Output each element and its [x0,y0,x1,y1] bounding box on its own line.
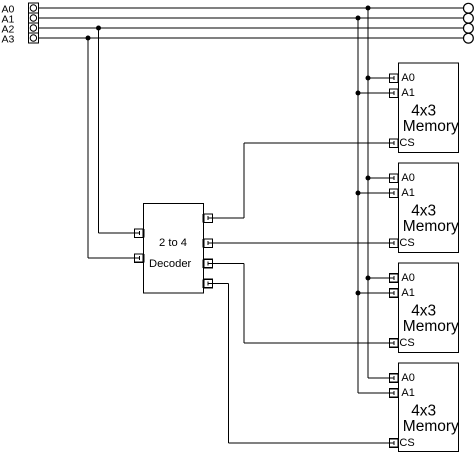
memory U4 pin CS [389,339,399,348]
memory U3 pin A1 [389,189,399,198]
wire U3 A0 branch [368,177,390,179]
wire out3 riser vertical [243,264,245,344]
memory U5 body [399,363,459,452]
svg-text:Memory: Memory [403,118,459,135]
svg-text:2 to 4: 2 to 4 [159,237,187,249]
decoder U1 output pin 3 [203,259,213,268]
svg-text:CS: CS [399,137,414,149]
memory U2 pin CS [389,139,399,148]
wire A2 riser vertical [98,28,100,233]
terminal A0 right [464,3,474,13]
wire A3 riser vertical [87,38,89,258]
memory U4 pin A1 [389,289,399,298]
svg-text:Memory: Memory [403,418,459,435]
wire U2 A1 branch [358,92,390,94]
memory U4 body [399,263,459,353]
svg-text:A0: A0 [401,172,414,184]
wire U3 A1 branch [358,192,390,194]
terminal A3 right [464,33,474,43]
memory U2 pin A1 [389,89,399,98]
junction U3 A0 [366,176,371,181]
wire A0 bus horizontal [39,7,464,9]
svg-text:A0: A0 [401,72,414,84]
junction U3 A1 [356,191,361,196]
wire U4 A1 branch [358,292,390,294]
svg-text:4x3: 4x3 [411,403,436,420]
memory U3 pin CS [389,239,399,248]
junction U4 A0 [366,276,371,281]
svg-text:A1: A1 [401,87,414,99]
wire out3 to U4 CS [244,342,390,344]
svg-text:Decoder: Decoder [149,258,192,270]
wire A1 bus horizontal [39,17,464,19]
wire A3 to decoder input [88,257,135,259]
svg-text:CS: CS [399,437,414,449]
wire out4 riser vertical [228,284,230,444]
decoder U1 input pin 1 [135,229,145,238]
wire U4 A0 branch [368,277,390,279]
wire U2 A0 branch [368,77,390,79]
svg-text:Memory: Memory [403,218,459,235]
decoder U1 output pin 4 [203,279,213,288]
wire A2 to decoder input [99,232,136,234]
svg-text:A1: A1 [401,287,414,299]
junction U2 A1 [356,91,361,96]
junction A0 bus tap [366,6,371,11]
memory U5 pin A0 [389,374,399,383]
decoder U1 body [144,204,204,294]
wire out1 to U2 CS [244,142,390,144]
junction A2 bus tap [96,26,101,31]
wire decoder out1 horizontal [213,217,245,219]
memory U5 pin A1 [389,389,399,398]
svg-text:Memory: Memory [403,318,459,335]
decoder U1 output pin 1 [203,214,213,223]
svg-text:A0: A0 [401,272,414,284]
memory U4 pin A0 [389,274,399,283]
memory U2 body [399,63,459,153]
wire A1 riser vertical [357,18,359,393]
svg-text:4x3: 4x3 [411,103,436,120]
memory U3 pin A0 [389,174,399,183]
svg-text:A3: A3 [2,33,15,45]
wire decoder out4 horizontal [213,283,229,285]
svg-text:CS: CS [399,237,414,249]
svg-text:CS: CS [399,337,414,349]
wire A1 to U5 elbow [358,392,390,394]
wire A0 riser vertical [367,8,369,378]
svg-text:A0: A0 [401,372,414,384]
wire decoder out2 to U3 CS [213,242,390,244]
wire A2 bus horizontal [39,27,464,29]
terminal A1 right [464,13,474,23]
wire out1 riser vertical [243,143,245,218]
junction A1 bus tap [356,16,361,21]
junction U2 A0 [366,76,371,81]
decoder U1 output pin 2 [203,239,213,248]
svg-text:4x3: 4x3 [411,303,436,320]
junction U4 A1 [356,291,361,296]
wire out4 to U5 CS [229,442,390,444]
svg-text:A1: A1 [401,387,414,399]
wire decoder out3 horizontal [213,263,245,265]
memory U5 pin CS [389,439,399,448]
svg-text:4x3: 4x3 [411,203,436,220]
memory U2 pin A0 [389,74,399,83]
svg-text:A1: A1 [401,187,414,199]
wire A3 bus horizontal [39,37,464,39]
junction A3 bus tap [86,36,91,41]
terminal A2 right [464,23,474,33]
connector J1 (input port A0-A3) [28,3,38,43]
wire A0 to U5 elbow [368,377,390,379]
decoder U1 input pin 2 [135,254,145,262]
memory U3 body [399,163,459,253]
